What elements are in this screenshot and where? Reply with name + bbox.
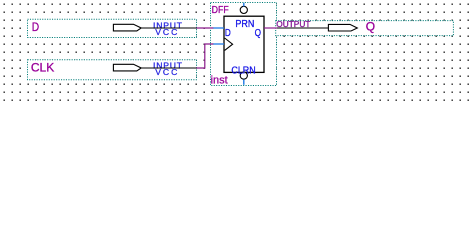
pin stub line — [141, 27, 197, 29]
input pin CLK — [31, 60, 197, 77]
input pin D — [32, 20, 197, 37]
selection box: output pin Q — [276, 21, 454, 36]
input pennant symbol — [113, 24, 141, 31]
D flip-flop inst (DFF) — [211, 3, 264, 87]
svg-text:PRN: PRN — [235, 19, 254, 31]
svg-text:D: D — [225, 26, 231, 38]
svg-text:D: D — [32, 21, 39, 34]
input pennant symbol — [113, 64, 141, 71]
svg-text:Q: Q — [255, 26, 261, 38]
selection box: flip-flop inst — [211, 3, 277, 86]
svg-text:inst: inst — [211, 74, 228, 86]
svg-text:Q: Q — [366, 19, 375, 33]
svg-text:CLRN: CLRN — [231, 65, 255, 77]
pin stub line — [141, 67, 197, 69]
clock wedge — [225, 38, 233, 50]
output pin Q — [276, 19, 375, 33]
output pennant symbol — [328, 24, 357, 31]
selection box: input pin D — [28, 19, 197, 37]
svg-text:CLK: CLK — [31, 60, 54, 74]
wire: CLK to DFF.CLK — [197, 44, 214, 68]
wire: D to DFF.D — [197, 27, 214, 29]
selection box: input pin CLK — [28, 60, 197, 80]
flip-flop body — [224, 16, 264, 72]
pin stub D (blue) — [213, 27, 224, 29]
pin stub CLK (blue) — [213, 43, 224, 45]
PRN bubble — [240, 6, 247, 13]
pin stub line — [277, 27, 329, 29]
CLRN stub — [243, 79, 245, 84]
wire: DFF.Q to output pin — [264, 27, 277, 29]
PRN stub — [243, 3, 245, 7]
CLRN bubble — [240, 72, 247, 79]
svg-text:DFF: DFF — [212, 3, 229, 15]
